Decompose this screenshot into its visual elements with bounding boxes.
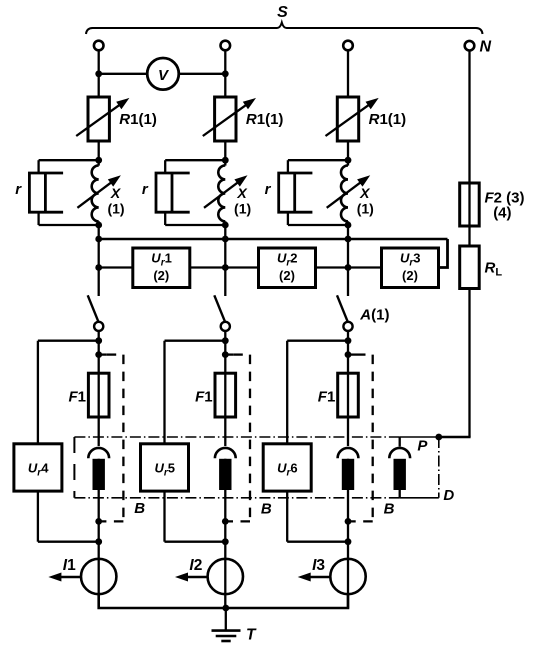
svg-text:(2): (2)	[279, 268, 295, 283]
boundary D bottom	[400, 497, 439, 499]
svg-text:S: S	[277, 4, 288, 21]
N terminal	[465, 41, 475, 51]
N wire	[468, 51, 470, 246]
svg-text:B: B	[134, 500, 145, 517]
spare CT column	[389, 437, 410, 498]
phase 2	[141, 41, 257, 608]
svg-text:(2): (2)	[153, 268, 169, 283]
phase 3	[263, 41, 379, 608]
bus wire	[99, 238, 448, 240]
node phase1 V tap	[95, 70, 102, 77]
svg-text:B: B	[384, 501, 395, 518]
svg-text:X: X	[236, 185, 248, 201]
svg-text:I3: I3	[312, 557, 325, 574]
wire Ur3 to bus	[439, 239, 448, 268]
svg-text:B: B	[261, 501, 272, 518]
svg-text:N: N	[480, 39, 492, 56]
wire Ur1 right	[190, 266, 226, 268]
svg-text:(1): (1)	[234, 201, 251, 217]
svg-text:(1): (1)	[107, 201, 124, 217]
svg-text:T: T	[246, 627, 257, 644]
svg-text:F1: F1	[69, 389, 87, 406]
svg-text:R1(1): R1(1)	[369, 111, 407, 128]
boundary B left (dashed)	[73, 437, 75, 498]
svg-text:(2): (2)	[402, 268, 418, 283]
voltmeter V	[147, 58, 179, 90]
svg-text:R1(1): R1(1)	[246, 111, 284, 128]
wire Ur1 left	[99, 266, 133, 268]
voltmeter wire	[99, 73, 226, 75]
svg-text:D: D	[443, 487, 454, 504]
node ground tap	[222, 605, 229, 612]
resistor RL	[460, 246, 480, 289]
brace S	[86, 23, 483, 35]
svg-text:(4): (4)	[493, 205, 511, 222]
boundary B bottom (dash-dot)	[74, 497, 399, 499]
wire Ur2 left	[225, 266, 258, 268]
wire P	[439, 436, 471, 439]
svg-text:(1): (1)	[357, 201, 374, 217]
svg-text:I2: I2	[189, 557, 202, 574]
box Ur3	[382, 248, 439, 288]
wire Ur3 left	[348, 266, 382, 268]
fuse F2	[460, 183, 480, 226]
ground	[212, 631, 241, 641]
node phase2 V tap	[222, 70, 229, 77]
svg-text:F1: F1	[318, 389, 336, 406]
boundary B top (dash-dot)	[74, 436, 399, 438]
CT core	[394, 459, 406, 490]
svg-text:A(1): A(1)	[359, 307, 389, 324]
svg-text:X: X	[359, 185, 371, 201]
boundary D right (dash-dot)	[438, 437, 440, 498]
svg-text:X: X	[110, 185, 122, 201]
bottom bus	[99, 594, 348, 608]
phase 1	[14, 41, 130, 608]
N wire down to P	[468, 289, 470, 438]
wire Ur2 right	[316, 266, 349, 268]
svg-text:R1(1): R1(1)	[119, 111, 157, 128]
box Ur1	[133, 248, 190, 288]
svg-text:F1: F1	[195, 389, 213, 406]
box Ur2	[259, 248, 316, 288]
CT arc	[389, 448, 410, 458]
svg-text:I1: I1	[63, 557, 76, 574]
ground stem	[225, 608, 227, 630]
node P	[435, 434, 442, 441]
svg-text:P: P	[417, 438, 428, 455]
